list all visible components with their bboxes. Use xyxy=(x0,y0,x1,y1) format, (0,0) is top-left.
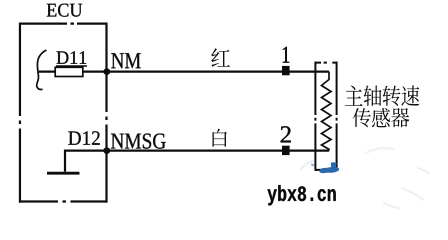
faint grey smudge marks xyxy=(301,148,428,208)
label D11 (underlined) xyxy=(56,51,87,66)
wire break squiggle xyxy=(37,50,47,89)
junction node NM xyxy=(103,68,110,75)
label ECU xyxy=(47,4,83,17)
wire: resistor to node NM xyxy=(83,70,107,72)
blue ink blot xyxy=(311,162,339,173)
label 传感器 (sensor) xyxy=(353,108,410,127)
wire: NM to sensor coil (red wire) xyxy=(107,70,329,72)
ECU enclosure box (chain-line border) xyxy=(19,23,107,203)
junction node NMSG xyxy=(103,147,110,154)
terminal pin 2 (square) xyxy=(282,146,290,155)
resistor at ECU pin D11 xyxy=(55,67,83,76)
pin number 2 xyxy=(281,126,291,142)
label D12 xyxy=(68,131,99,145)
inductor coil (sensor winding) xyxy=(322,72,332,151)
label 主轴转速 (spindle speed) xyxy=(345,85,419,105)
label 红 (red) xyxy=(211,48,230,67)
label NMSG xyxy=(111,133,166,148)
pin number 1 xyxy=(283,47,289,63)
label NM xyxy=(111,53,140,68)
label 白 (white) xyxy=(213,129,228,147)
sensor enclosure box (chain-line border) xyxy=(315,62,338,171)
wire: node NMSG to ground xyxy=(65,151,107,172)
ground xyxy=(47,172,80,175)
wire: NMSG to sensor coil (white wire) xyxy=(107,150,329,152)
wire: break to resistor xyxy=(39,70,55,72)
terminal pin 1 (square) xyxy=(282,66,290,75)
watermark ybx8.cn xyxy=(267,185,335,205)
